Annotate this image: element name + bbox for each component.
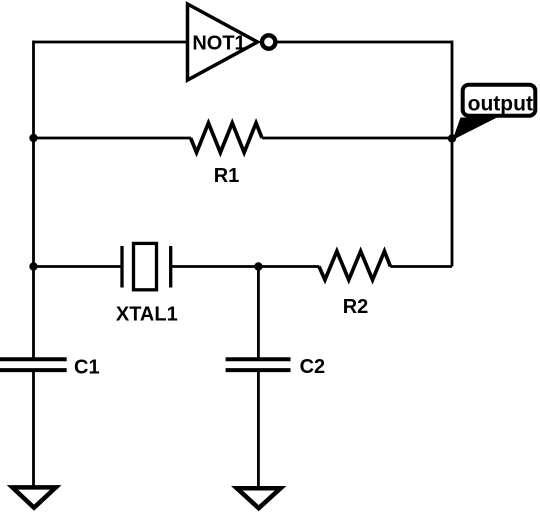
svg-text:NOT1: NOT1 [192, 33, 245, 55]
svg-text:R1: R1 [214, 165, 240, 187]
crystal XTAL1 right plate [169, 246, 172, 288]
node junction left R1 [29, 134, 37, 142]
wire C2 down from node [257, 267, 260, 360]
node junction left crystal [29, 262, 37, 270]
inverter bubble [262, 35, 275, 48]
inverter gate NOT1 (triangle) [188, 4, 258, 80]
wire crystal to R2 [172, 265, 320, 268]
wire C1 to ground [32, 372, 35, 488]
wire right rail vertical [451, 41, 454, 267]
wire R1 row left [34, 137, 192, 140]
wire crystal row left [34, 265, 122, 268]
node junction C2 [254, 262, 262, 270]
wire top left horizontal [34, 41, 188, 44]
svg-text:R2: R2 [343, 296, 369, 318]
ground C2 [237, 488, 281, 508]
resistor R2 [319, 251, 390, 280]
svg-text:C2: C2 [300, 356, 326, 378]
wire left rail vertical [32, 41, 35, 360]
crystal XTAL1 left plate [120, 246, 123, 288]
wire C2 to ground [257, 372, 260, 489]
svg-text:output: output [468, 92, 533, 115]
wire R2 to right rail [390, 265, 452, 268]
resistor R1 [191, 123, 262, 153]
ground C1 [12, 487, 55, 507]
svg-text:C1: C1 [74, 356, 100, 378]
capacitor C1 bottom plate [0, 368, 67, 372]
wire top right horizontal (bubble to corner) [276, 41, 453, 44]
output callout box [463, 85, 536, 116]
capacitor C1 top plate [0, 357, 67, 361]
wire R1 row right [262, 137, 452, 140]
output callout tail [453, 118, 498, 141]
node junction right output [448, 134, 456, 142]
capacitor C2 top plate [226, 357, 291, 361]
crystal XTAL1 body [134, 243, 157, 289]
svg-text:XTAL1: XTAL1 [116, 304, 178, 326]
capacitor C2 bottom plate [226, 368, 291, 372]
